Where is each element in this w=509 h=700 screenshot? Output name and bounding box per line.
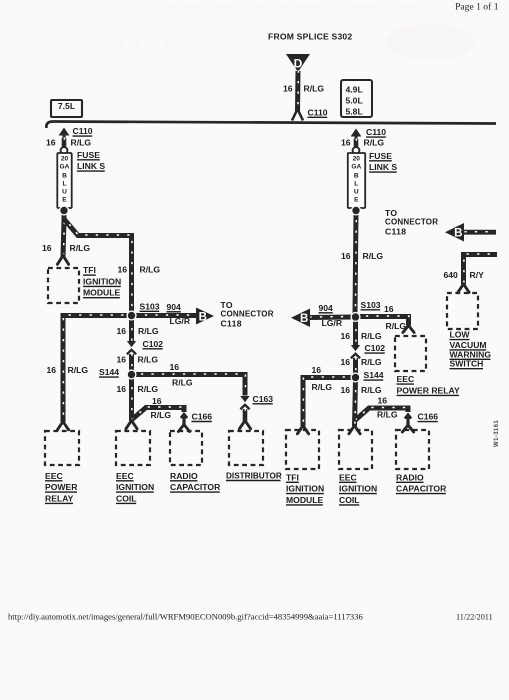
svg-text:R/LG: R/LG [151, 410, 172, 420]
svg-text:16: 16 [283, 83, 293, 93]
svg-text:16: 16 [117, 354, 127, 364]
svg-text:Page 1 of 1: Page 1 of 1 [455, 2, 499, 13]
svg-text:R/LG: R/LG [138, 354, 159, 364]
svg-text:16: 16 [378, 395, 388, 405]
svg-text:B: B [300, 313, 308, 325]
svg-text:C118: C118 [385, 226, 406, 236]
svg-text:RELAY: RELAY [45, 493, 74, 503]
svg-text:MODULE: MODULE [286, 495, 324, 505]
svg-text:7.5L: 7.5L [58, 101, 75, 111]
svg-text:R/LG: R/LG [363, 251, 384, 261]
svg-text:C166: C166 [192, 412, 213, 422]
svg-text:C110: C110 [308, 107, 328, 117]
svg-text:B: B [62, 172, 67, 179]
svg-text:TFI: TFI [286, 472, 299, 482]
svg-text:R/LG: R/LG [361, 385, 382, 395]
svg-text:16: 16 [118, 264, 128, 274]
svg-text:16: 16 [42, 243, 52, 253]
svg-text:C110: C110 [366, 127, 386, 137]
svg-text:GA: GA [351, 163, 361, 170]
svg-text:16: 16 [117, 326, 127, 336]
svg-text:RADIO: RADIO [170, 471, 198, 481]
svg-text:SWITCH: SWITCH [450, 359, 484, 369]
svg-text:E: E [62, 196, 67, 203]
svg-text:16: 16 [46, 137, 56, 147]
svg-text:R/LG: R/LG [71, 137, 92, 147]
svg-text:R/Y: R/Y [470, 270, 485, 280]
svg-text:R/LG: R/LG [138, 384, 159, 394]
svg-text:R/LG: R/LG [377, 410, 398, 420]
svg-text:R/LG: R/LG [138, 326, 159, 336]
svg-text:LG/R: LG/R [322, 318, 343, 328]
svg-text:R/LG: R/LG [312, 382, 333, 392]
svg-text:MODULE: MODULE [83, 288, 121, 298]
svg-text:EEC: EEC [116, 471, 134, 481]
svg-text:11/22/2011: 11/22/2011 [456, 613, 493, 622]
svg-text:904: 904 [167, 302, 182, 312]
svg-text:R/LG: R/LG [140, 264, 161, 274]
svg-text:R/LG: R/LG [386, 321, 407, 331]
svg-text:16: 16 [384, 304, 394, 314]
svg-text:LINK S: LINK S [77, 161, 105, 171]
svg-text:20: 20 [61, 155, 69, 162]
svg-text:U: U [354, 188, 359, 195]
svg-text:C102: C102 [143, 339, 164, 349]
svg-text:R/LG: R/LG [172, 377, 193, 387]
svg-text:RADIO: RADIO [396, 472, 424, 482]
svg-text:U: U [62, 188, 67, 195]
svg-text:TO: TO [221, 300, 233, 310]
svg-text:LINK S: LINK S [369, 162, 397, 172]
svg-text:16: 16 [341, 385, 351, 395]
svg-text:C102: C102 [365, 343, 386, 353]
svg-text:16: 16 [312, 365, 322, 375]
svg-text:B: B [199, 311, 207, 323]
svg-text:16: 16 [47, 365, 57, 375]
svg-text:R/LG: R/LG [361, 357, 382, 367]
svg-text:IGNITION: IGNITION [83, 276, 121, 286]
svg-text:IGNITION: IGNITION [286, 484, 324, 494]
svg-text:CAPACITOR: CAPACITOR [396, 484, 447, 494]
svg-text:16: 16 [341, 251, 351, 261]
svg-text:4.9L: 4.9L [346, 85, 363, 95]
svg-text:FUSE: FUSE [369, 151, 392, 161]
svg-text:L: L [354, 180, 358, 187]
svg-text:POWER RELAY: POWER RELAY [397, 385, 460, 395]
svg-text:GA: GA [60, 163, 70, 170]
svg-text:IGNITION: IGNITION [339, 484, 377, 494]
svg-text:S103: S103 [140, 301, 160, 311]
svg-text:16: 16 [152, 396, 162, 406]
svg-text:R/LG: R/LG [364, 137, 385, 147]
svg-text:C110: C110 [73, 126, 93, 136]
svg-text:TO: TO [385, 208, 397, 218]
svg-text:CAPACITOR: CAPACITOR [170, 482, 221, 492]
svg-text:5.8L: 5.8L [346, 107, 363, 117]
svg-text:TFI: TFI [83, 265, 96, 275]
svg-text:B: B [354, 172, 359, 179]
svg-text:EEC: EEC [339, 472, 357, 482]
svg-text:B: B [454, 228, 462, 240]
svg-text:D: D [294, 56, 303, 70]
svg-text:FUSE: FUSE [77, 150, 100, 160]
svg-text:POWER: POWER [45, 482, 78, 492]
svg-text:S144: S144 [99, 367, 119, 377]
svg-text:LG/R: LG/R [170, 316, 191, 326]
svg-text:FROM SPLICE S302: FROM SPLICE S302 [268, 31, 352, 41]
svg-text:S103: S103 [361, 300, 381, 310]
svg-text:16: 16 [170, 362, 180, 372]
svg-text:best auto repair diagrams for: best auto repair diagrams for this onlin… [147, 3, 456, 10]
svg-text:R/LG: R/LG [304, 83, 325, 93]
svg-text:16: 16 [117, 384, 127, 394]
svg-text:16: 16 [341, 331, 351, 341]
svg-text:16: 16 [341, 357, 351, 367]
svg-text:DISTRIBUTOR: DISTRIBUTOR [226, 472, 282, 481]
svg-text:R/LG: R/LG [68, 365, 89, 375]
svg-text:5.0L: 5.0L [346, 96, 363, 106]
svg-text:R/LG: R/LG [361, 331, 382, 341]
svg-text:W1-3161: W1-3161 [494, 420, 500, 447]
svg-text:S144: S144 [364, 370, 384, 380]
svg-text:C118: C118 [221, 318, 242, 328]
svg-text:CONNECTOR: CONNECTOR [385, 218, 438, 227]
svg-text:COIL: COIL [339, 495, 360, 505]
svg-text:20: 20 [353, 155, 361, 162]
svg-text:C166: C166 [418, 412, 439, 422]
svg-text:C163: C163 [253, 394, 274, 404]
svg-text:CONNECTOR: CONNECTOR [221, 310, 274, 319]
svg-text:http://diy.automotix.net/image: http://diy.automotix.net/images/general/… [8, 612, 364, 622]
svg-text:L: L [62, 180, 66, 187]
svg-text:E: E [354, 196, 359, 203]
svg-text:904: 904 [319, 303, 334, 313]
svg-text:COIL: COIL [116, 493, 137, 503]
svg-text:EEC: EEC [397, 374, 415, 384]
svg-text:EEC: EEC [45, 471, 63, 481]
svg-text:16: 16 [341, 137, 351, 147]
svg-text:640: 640 [444, 270, 459, 280]
svg-text:R/LG: R/LG [70, 243, 91, 253]
svg-text:LOW: LOW [450, 330, 471, 340]
svg-text:IGNITION: IGNITION [116, 482, 154, 492]
